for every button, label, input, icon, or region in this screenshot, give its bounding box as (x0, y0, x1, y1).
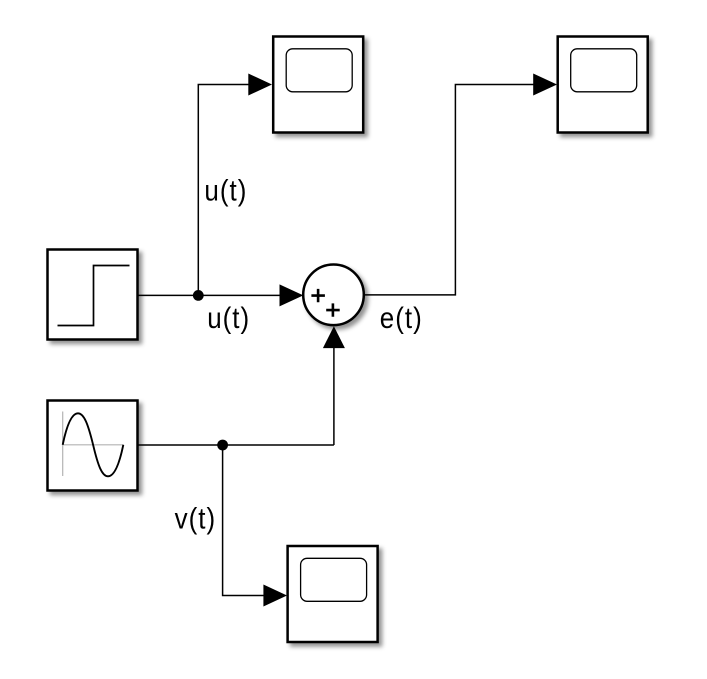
wire junction down to Scope1 (223, 445, 265, 596)
svg-text:v(t): v(t) (175, 502, 217, 535)
scope screen v(t) (301, 558, 367, 601)
node junction v(t) (217, 440, 228, 451)
wire junction up to Scope (198, 85, 250, 296)
wire sum output to Scope2 (364, 85, 535, 295)
wire step output to sum (138, 294, 282, 296)
block Scope1 v(t) (288, 546, 378, 642)
svg-text:u(t): u(t) (204, 174, 247, 207)
block Sine Wave (48, 401, 138, 491)
svg-text:e(t): e(t) (380, 301, 423, 334)
arrowhead into Scope u(t) (248, 74, 272, 96)
step icon (58, 266, 130, 326)
arrowhead into sum left input (280, 284, 304, 306)
scope screen e(t) (571, 49, 637, 92)
scope screen u(t) (286, 49, 352, 92)
svg-text:u(t): u(t) (207, 301, 250, 334)
block Scope2 e(t) (558, 37, 648, 133)
sine curve (63, 413, 124, 476)
sum block (303, 265, 364, 326)
arrowhead into Scope1 (263, 585, 287, 607)
sum plus sign 1 (311, 289, 325, 302)
arrowhead into sum bottom input (323, 326, 345, 348)
wire sine output to corner below sum (138, 444, 334, 446)
node junction u(t) (193, 290, 204, 301)
arrowhead into Scope2 (533, 74, 557, 96)
wire up into sum bottom input (333, 347, 335, 445)
block Step (48, 250, 138, 340)
block Scope u(t) (273, 37, 363, 133)
sum plus sign 2 (326, 303, 340, 316)
sine axes (63, 412, 124, 477)
